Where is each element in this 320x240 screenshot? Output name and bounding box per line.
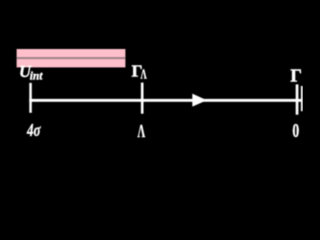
arrowhead bbox=[192, 94, 207, 107]
tick 4sigma bbox=[29, 83, 32, 113]
svg-text:0: 0 bbox=[292, 120, 299, 139]
axis line bbox=[29, 99, 302, 102]
band midline bbox=[17, 57, 126, 59]
tick 0 bbox=[296, 84, 299, 114]
svg-text:Λ: Λ bbox=[141, 68, 147, 83]
svg-text:Γ: Γ bbox=[290, 65, 301, 85]
tick Lambda bbox=[141, 83, 144, 114]
edge bar bbox=[301, 86, 303, 111]
interaction band U_int (pink rectangle) bbox=[17, 49, 126, 67]
svg-text:Λ: Λ bbox=[138, 121, 146, 139]
svg-text:4σ: 4σ bbox=[26, 120, 41, 139]
